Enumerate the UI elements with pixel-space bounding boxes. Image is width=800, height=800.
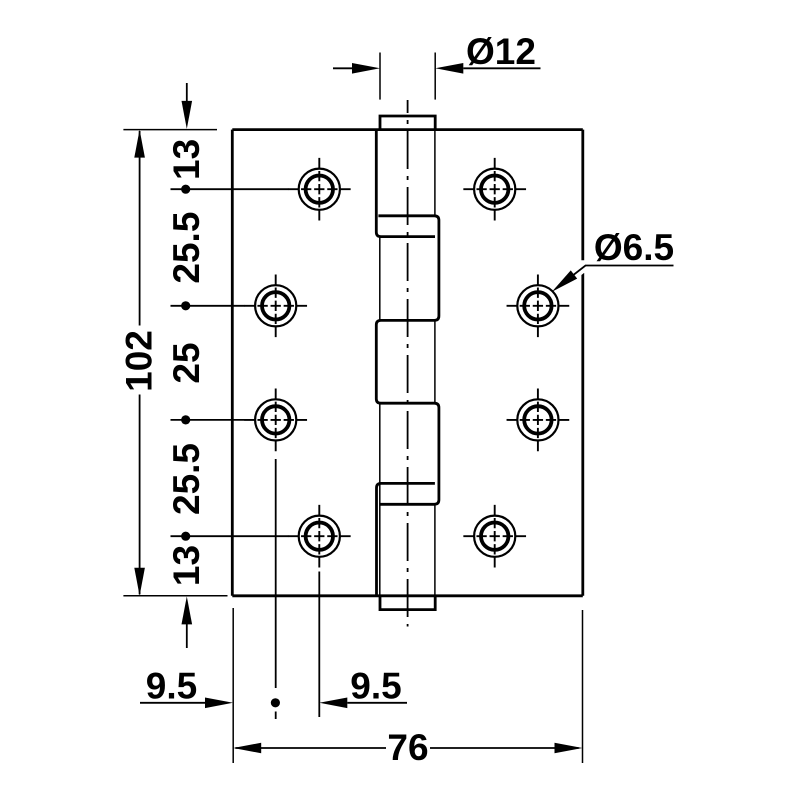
- svg-text:25.5: 25.5: [166, 212, 207, 284]
- hole row4 right: vertical center line: [494, 503, 496, 570]
- dimension diameter 12: left arrowhead: [352, 63, 380, 74]
- dimension 9.5 left: arrowhead (points right to leaf edge): [205, 698, 233, 709]
- row3 center line extension to chain dimension: [171, 419, 245, 421]
- dimension 76: extension line at leaf right edge: [582, 610, 584, 763]
- hole row4 left: vertical center line: [318, 503, 320, 570]
- knuckle segment 5 (left leaf) outline: [377, 483, 435, 595]
- hole row1 left: vertical center line: [318, 156, 320, 223]
- hole row4 left: countersink outer circle: [299, 516, 340, 557]
- hole row2 left: bore circle: [262, 292, 289, 319]
- dimension 102: top arrowhead: [134, 130, 145, 158]
- hole row2 left: horizontal center line: [242, 305, 309, 307]
- svg-text:13: 13: [166, 139, 207, 180]
- hole row2 right: countersink outer circle: [517, 285, 558, 326]
- svg-text:9.5: 9.5: [350, 666, 401, 707]
- chain dimension dot row4: [181, 532, 190, 541]
- dimension dot at hole column A: [271, 698, 280, 707]
- dimension 76: left arrowhead: [233, 743, 261, 754]
- dimension 102: bottom extension line: [123, 595, 227, 597]
- hole row4 right: horizontal center line: [461, 535, 528, 537]
- knuckle bottom cap: [380, 596, 435, 610]
- chain dimension dot row2: [181, 301, 190, 310]
- dimension 9.5 middle: dimension line: [347, 702, 407, 704]
- hole row4 left: bore circle: [306, 523, 333, 550]
- chain dimension dot row1: [181, 185, 190, 194]
- knuckle back edge thin line right of segment 5: [434, 504, 436, 596]
- knuckle segments 2-4 zigzag outline: [376, 216, 439, 505]
- chain dimension bottom arrowhead (points up to leaf bottom): [182, 596, 193, 624]
- row1 center line extension to chain dimension: [171, 188, 289, 190]
- hole row2 right: bore circle: [524, 292, 551, 319]
- svg-text:Ø6.5: Ø6.5: [594, 227, 674, 268]
- row2 center line extension to chain dimension: [171, 305, 245, 307]
- hole row2 right: horizontal center line: [504, 305, 571, 307]
- svg-text:9.5: 9.5: [146, 666, 197, 707]
- dimension diameter 6.5: leader line: [556, 266, 674, 289]
- hole row3 left: horizontal center line: [242, 419, 309, 421]
- hole row4 right: countersink outer circle: [474, 516, 515, 557]
- dimension 9.5 left: extension line at leaf left edge: [232, 608, 234, 763]
- knuckle top cap: [380, 116, 435, 130]
- dimension 102: dimension line (gap at label): [139, 131, 141, 594]
- dimension diameter 12: left dimension line: [333, 67, 353, 69]
- right leaf right edge (gap where leader crosses): [581, 130, 584, 596]
- dimension 76: right arrowhead: [555, 743, 583, 754]
- dimension 9.5 left: dimension line: [140, 702, 206, 704]
- hinge leaf top edge: [232, 128, 583, 131]
- hole row2 left: vertical center line: [275, 272, 277, 339]
- svg-text:13: 13: [166, 545, 207, 586]
- hole row1 right: horizontal center line: [461, 188, 528, 190]
- chain dimension top arrow tail: [186, 83, 188, 102]
- hole row3 right: countersink outer circle: [517, 399, 558, 440]
- dimension diameter 6.5: leader white halo: [567, 266, 600, 281]
- dimension diameter 12: right dimension line: [463, 67, 540, 69]
- hole row3 right: vertical center line: [537, 386, 539, 453]
- hole row2 left: countersink outer circle: [255, 285, 296, 326]
- svg-text:76: 76: [387, 727, 428, 768]
- knuckle back edge thin line right of segment 1: [434, 130, 436, 216]
- hole column A vertical center line down to 9.5 dimension: [275, 459, 277, 688]
- dimension diameter 6.5: arrowhead at hole: [552, 270, 577, 291]
- svg-text:Ø12: Ø12: [466, 31, 536, 72]
- hole row3 right: bore circle: [524, 406, 551, 433]
- dimension diameter 12: left extension line: [379, 53, 381, 100]
- dimension diameter 12: right extension line: [434, 53, 436, 100]
- hinge leaf bottom edge: [232, 594, 583, 597]
- dimension 9.5 middle: arrowhead (points left to column B): [319, 698, 347, 709]
- knuckle back edge thin line left of segment 2: [379, 237, 381, 321]
- hole row1 right: vertical center line: [494, 156, 496, 223]
- hole row4 left: horizontal center line: [286, 535, 353, 537]
- dimension 102: top extension line: [123, 129, 217, 131]
- chain dimension dot row3: [181, 415, 190, 424]
- dimension diameter 12: right arrowhead: [435, 63, 463, 74]
- svg-text:25: 25: [166, 342, 207, 383]
- hole row3 right: horizontal center line: [504, 419, 571, 421]
- left leaf left edge: [231, 130, 234, 596]
- dimension 102: bottom arrowhead: [134, 568, 145, 596]
- hole row2 right: vertical center line: [537, 272, 539, 339]
- hole row3 left: bore circle: [262, 406, 289, 433]
- hole column A center line stub below dot: [275, 712, 277, 720]
- hole column B vertical center line down to 9.5 dimension: [318, 572, 320, 718]
- row4 center line extension to chain dimension: [171, 535, 289, 537]
- hole row1 right: bore circle: [481, 176, 508, 203]
- hole row1 left: bore circle: [306, 176, 333, 203]
- svg-text:25.5: 25.5: [166, 443, 207, 515]
- dimension 76: dimension line (gap at label): [235, 747, 578, 749]
- hole row1 left: horizontal center line: [286, 188, 353, 190]
- hole row3 left: countersink outer circle: [255, 399, 296, 440]
- knuckle pin center line (dash-dot): [407, 100, 409, 627]
- chain dimension bottom arrow tail: [186, 624, 188, 648]
- chain dimension top arrowhead (points down to leaf top): [182, 101, 193, 129]
- knuckle back edge thin line right of segment 3: [434, 320, 436, 403]
- hole row1 left: countersink outer circle: [299, 169, 340, 210]
- hole row4 right: bore circle: [481, 523, 508, 550]
- hole row1 right: countersink outer circle: [474, 169, 515, 210]
- knuckle segment 1 (left leaf) outline: [376, 130, 435, 237]
- hole row3 left: vertical center line: [275, 386, 277, 453]
- svg-text:102: 102: [119, 330, 160, 392]
- knuckle back edge thin line left of segments 4-5: [379, 403, 381, 596]
